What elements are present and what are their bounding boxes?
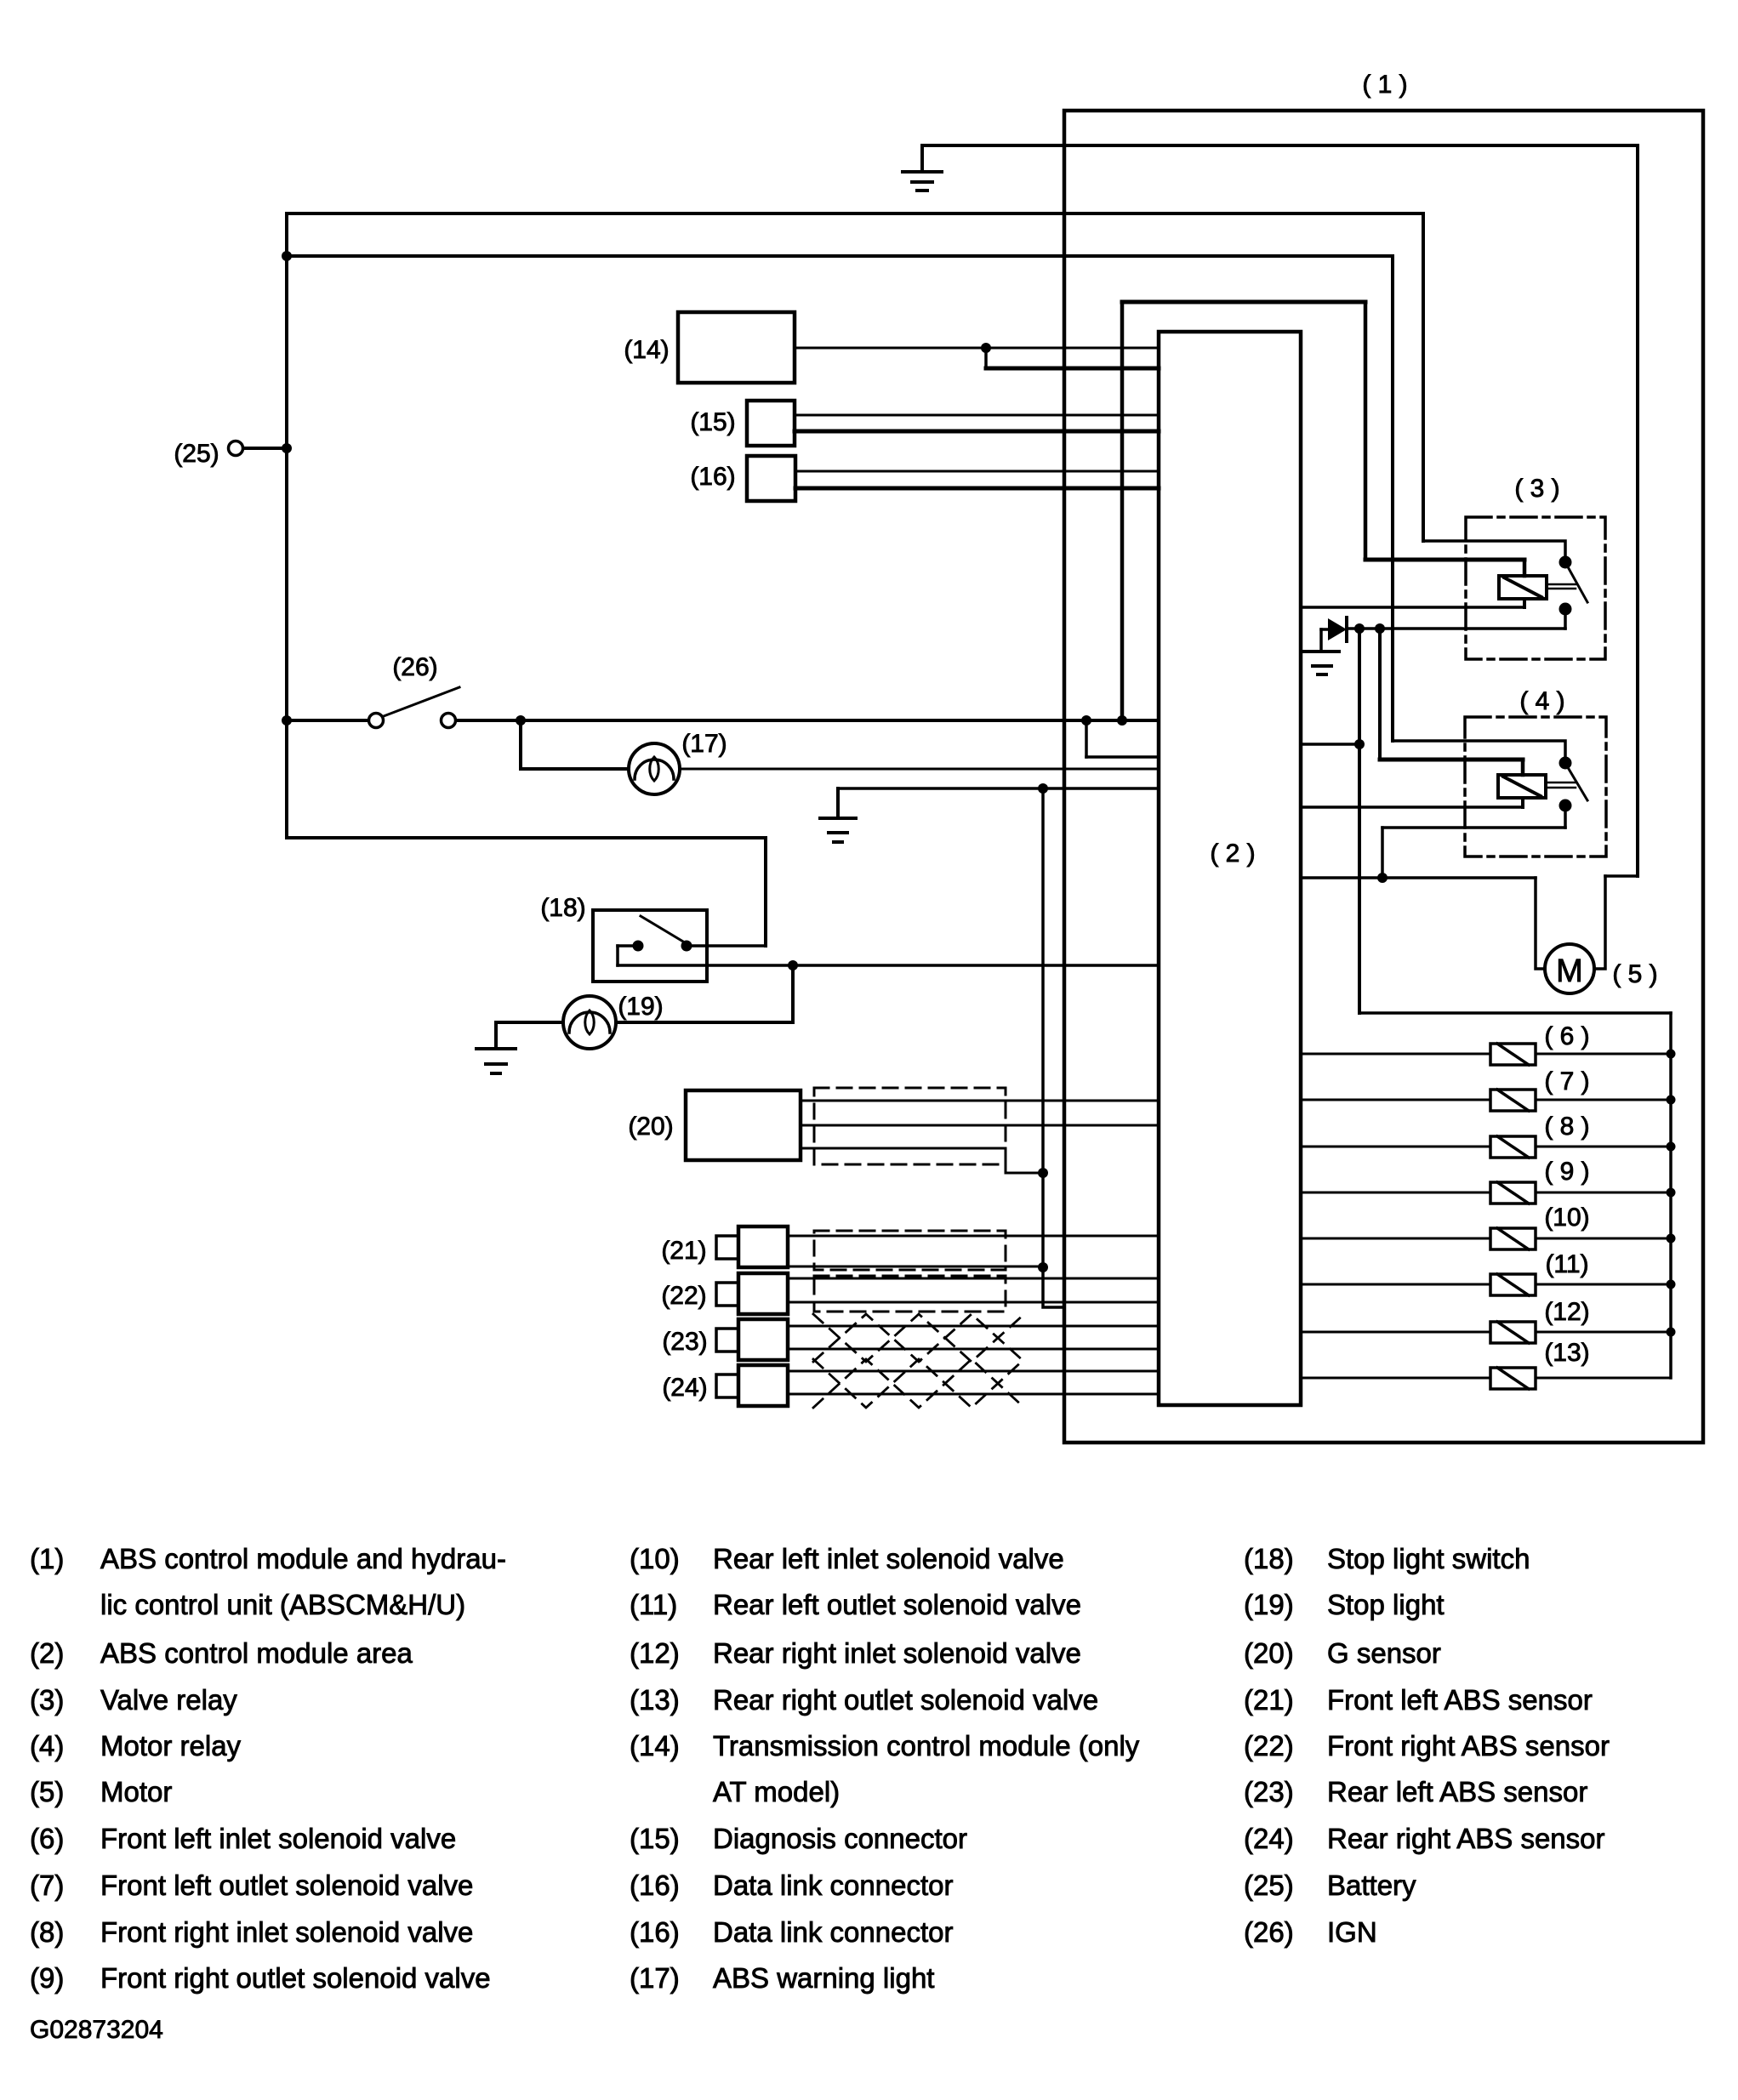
wire TCM branch drop (984, 348, 988, 368)
svg-text:(15): (15) (690, 408, 735, 436)
valve relay U3 dash-dot box (1466, 517, 1605, 659)
svg-text:(24): (24) (1244, 1823, 1294, 1854)
wire diode anode drop (1319, 629, 1323, 652)
wire motor relay output (1382, 826, 1565, 829)
svg-text:(14): (14) (624, 336, 669, 364)
ground G1 top (903, 145, 942, 191)
wire solenoid valve (12) right lead (1536, 1331, 1671, 1334)
wire module ground branch (1085, 720, 1088, 757)
wire IGN row left (287, 719, 368, 722)
wire solenoid bus top (1359, 1011, 1671, 1015)
G sensor shield dashed box (814, 1088, 1006, 1164)
svg-text:Battery: Battery (1327, 1870, 1416, 1901)
svg-text:( 3 ): ( 3 ) (1514, 475, 1559, 503)
sensor 23 twisted pair zigzag A (813, 1314, 1024, 1362)
wire sensor (22) lower lead (788, 1301, 1159, 1304)
wire stop light switch to module (618, 964, 1159, 967)
wire solenoid valve (12) left lead (1301, 1331, 1490, 1334)
svg-text:(19): (19) (1244, 1589, 1294, 1620)
wire solenoid valve (10) left lead (1301, 1238, 1490, 1240)
svg-text:(10): (10) (630, 1543, 680, 1574)
wire battery feed (243, 447, 287, 450)
svg-text:(12): (12) (630, 1637, 680, 1669)
svg-text:Stop light switch: Stop light switch (1327, 1543, 1530, 1574)
wire IGN bridge horizontal (1122, 300, 1365, 304)
node TCM branch (981, 343, 991, 353)
stop light switch box (18) (593, 910, 707, 982)
solenoid valve coil (9) (1490, 1182, 1536, 1204)
svg-text:(15): (15) (630, 1823, 680, 1854)
junction solenoid bus row (8) (1667, 1142, 1676, 1152)
ABS sensor (23) connector small box (716, 1329, 738, 1352)
data link connector box (16) (747, 456, 795, 501)
svg-text:(21): (21) (1244, 1684, 1294, 1716)
wire motor relay coil riser (1378, 629, 1382, 760)
ABS sensor (24) connector small box (716, 1374, 738, 1397)
svg-text:(9): (9) (30, 1962, 64, 1994)
svg-text:(19): (19) (618, 993, 663, 1021)
svg-text:( 7 ): ( 7 ) (1544, 1067, 1589, 1096)
wire module ground line (838, 787, 1159, 790)
stop light switch blade (641, 916, 683, 942)
wire motor relay coil bottom to module (1301, 805, 1523, 809)
svg-text:(25): (25) (1244, 1870, 1294, 1901)
svg-text:lic control unit (ABSCM&H/U): lic control unit (ABSCM&H/U) (100, 1589, 465, 1620)
svg-text:(16): (16) (690, 463, 735, 491)
wire IGN bridge riser (1120, 302, 1125, 720)
node battery junction (282, 443, 292, 453)
svg-text:ABS control module area: ABS control module area (100, 1637, 413, 1669)
wire solenoid valve (6) left lead (1301, 1053, 1490, 1056)
svg-text:Valve relay: Valve relay (100, 1684, 237, 1716)
svg-text:(1): (1) (30, 1543, 64, 1574)
svg-text:( 9 ): ( 9 ) (1544, 1158, 1589, 1186)
wire valve relay lower contact drop (1564, 612, 1567, 629)
solenoid valve coil (12) (1490, 1322, 1536, 1343)
node module sense junction (1354, 739, 1365, 749)
wire motor line from module (1301, 876, 1536, 879)
svg-text:(11): (11) (1545, 1250, 1588, 1278)
svg-text:Data link connector: Data link connector (713, 1916, 953, 1948)
svg-text:Diagnosis connector: Diagnosis connector (713, 1823, 967, 1854)
junction solenoid bus row (9) (1667, 1188, 1676, 1198)
wire motor relay lower contact drop (1564, 809, 1567, 828)
wire motor relay coil bottom stub (1521, 798, 1524, 807)
wire valve relay coil top feed (1365, 558, 1524, 562)
sensor 22 shield dashed box (814, 1276, 1006, 1312)
svg-text:Front right outlet solenoid va: Front right outlet solenoid valve (100, 1962, 491, 1994)
svg-text:(3): (3) (30, 1684, 64, 1716)
wire diagnosis connector lower (795, 430, 1159, 434)
svg-text:(22): (22) (1244, 1730, 1294, 1761)
svg-text:(23): (23) (662, 1328, 707, 1356)
wire stoplight feed into switch (687, 944, 766, 948)
svg-text:(20): (20) (628, 1113, 673, 1141)
svg-text:(6): (6) (30, 1823, 64, 1854)
wire solenoid valve (9) left lead (1301, 1192, 1490, 1194)
stop light switch contact left (633, 941, 644, 952)
wire solenoid supply bus riser (1358, 629, 1361, 1013)
svg-text:( 6 ): ( 6 ) (1544, 1022, 1589, 1050)
wire stop light right (616, 1021, 793, 1024)
wire module ground jog (1086, 755, 1159, 759)
svg-text:Transmission control module (o: Transmission control module (only (713, 1730, 1140, 1761)
svg-text:(4): (4) (30, 1730, 64, 1761)
IGN switch contact right (26) (442, 714, 456, 728)
svg-text:(23): (23) (1244, 1776, 1294, 1807)
svg-text:(2): (2) (30, 1637, 64, 1669)
node motor output junction (1377, 873, 1388, 883)
wire motor return link (1605, 874, 1638, 878)
ABSCM&H/U outer box U1 (1) (1064, 111, 1703, 1443)
node ABS lamp branch (516, 715, 526, 726)
TCM box (14) (678, 312, 795, 383)
node IGN rail left (282, 715, 292, 726)
svg-text:(12): (12) (1544, 1298, 1589, 1326)
svg-text:(24): (24) (662, 1374, 707, 1402)
svg-text:(17): (17) (681, 730, 727, 758)
wire solenoid valve (11) left lead (1301, 1283, 1490, 1286)
svg-text:(22): (22) (661, 1282, 706, 1310)
svg-text:(21): (21) (661, 1237, 706, 1265)
svg-text:G sensor: G sensor (1327, 1637, 1441, 1669)
wire motor right riser (1594, 876, 1605, 969)
ABS sensor (22) connector small box (716, 1283, 738, 1306)
wire stop light switch inner drop (616, 946, 619, 965)
wire G sensor out 2 (801, 1124, 1159, 1127)
svg-text:(18): (18) (1244, 1543, 1294, 1574)
wire sensor (21) lower lead to ground bus (788, 1266, 1043, 1268)
wire motor relay contact feed (1393, 741, 1565, 759)
node module ground branch (1081, 715, 1091, 726)
ABS sensor (23) body box (738, 1319, 788, 1360)
svg-text:Front left outlet solenoid val: Front left outlet solenoid valve (100, 1870, 473, 1901)
sensor 23 twisted pair zigzag B (813, 1314, 1024, 1362)
wire motor relay coil top stub (1521, 760, 1525, 775)
svg-text:AT model): AT model) (713, 1776, 840, 1807)
svg-text:Data link connector: Data link connector (713, 1870, 953, 1901)
junction solenoid bus row (7) (1667, 1096, 1676, 1105)
motor relay U4 dash-dot box (1465, 717, 1606, 857)
svg-text:(20): (20) (1244, 1637, 1294, 1669)
wire sensor (23) lower lead (788, 1348, 1159, 1351)
svg-text:( 2 ): ( 2 ) (1210, 839, 1255, 868)
svg-text:Front left ABS sensor: Front left ABS sensor (1327, 1684, 1593, 1716)
wire sensor ground bus (1043, 788, 1064, 1307)
wire sensor (24) lower lead (788, 1393, 1159, 1396)
sensor 21 shield dashed box (814, 1231, 1006, 1270)
svg-text:ABS warning light: ABS warning light (713, 1962, 934, 1994)
svg-text:Rear right ABS sensor: Rear right ABS sensor (1327, 1823, 1605, 1854)
valve relay armature (1547, 584, 1576, 589)
diode D1 (1321, 617, 1347, 641)
node stop light branch (788, 960, 798, 970)
svg-text:( 4 ): ( 4 ) (1519, 687, 1564, 715)
wire ABS lamp left (521, 767, 629, 771)
wire G sensor shield (801, 1148, 1043, 1173)
wire solenoid valve (7) right lead (1536, 1099, 1671, 1101)
svg-text:Rear left outlet solenoid valv: Rear left outlet solenoid valve (713, 1589, 1081, 1620)
svg-text:(26): (26) (1244, 1916, 1294, 1948)
svg-text:Front right ABS sensor: Front right ABS sensor (1327, 1730, 1610, 1761)
ground G2 module (820, 788, 856, 842)
svg-text:(14): (14) (630, 1730, 680, 1761)
node G sensor shield junction (1038, 1168, 1048, 1178)
ground G4 diode (1303, 652, 1339, 674)
svg-text:Stop light: Stop light (1327, 1589, 1445, 1620)
wire solenoid valve (13) right lead (1536, 1377, 1671, 1380)
valve relay coil K3 (1499, 576, 1547, 599)
wire sensor (23) upper lead (788, 1325, 1159, 1328)
valve relay upper contact (1559, 556, 1572, 569)
wire motor output drop (1381, 828, 1384, 878)
wire ABS lamp right (680, 768, 1159, 771)
solenoid valve coil (7) (1490, 1090, 1536, 1111)
wire sensor (21) upper lead (788, 1235, 1159, 1238)
wire data link connector lower (795, 487, 1159, 491)
svg-text:Motor: Motor (100, 1776, 172, 1807)
svg-text:(8): (8) (30, 1916, 64, 1948)
svg-text:Rear right outlet solenoid val: Rear right outlet solenoid valve (713, 1684, 1098, 1716)
wire TCM output (795, 347, 1159, 350)
wire ground line top (922, 144, 1638, 147)
sensor 24 twisted pair zigzag A (813, 1359, 1024, 1408)
motor relay coil K4 (1498, 775, 1546, 798)
wire battery-plus top bus (287, 212, 1423, 215)
solenoid valve coil (11) (1490, 1274, 1536, 1295)
svg-text:(10): (10) (1544, 1204, 1589, 1232)
wire ABS lamp branch drop (519, 720, 522, 769)
wire solenoid valve (13) left lead (1301, 1377, 1490, 1380)
wire stoplight feed drop (764, 838, 767, 946)
IGN switch blade (26) (384, 687, 459, 716)
svg-text:(25): (25) (174, 440, 219, 468)
svg-text:(11): (11) (630, 1589, 677, 1620)
svg-text:(13): (13) (1544, 1339, 1589, 1367)
wire left rail vertical (285, 213, 288, 838)
ABS sensor (24) body box (738, 1365, 788, 1406)
wire solenoid valve (8) left lead (1301, 1146, 1490, 1148)
svg-text:(18): (18) (540, 894, 585, 922)
svg-text:(5): (5) (30, 1776, 64, 1807)
junction solenoid bus row (11) (1667, 1280, 1676, 1289)
ABS sensor (21) connector small box (716, 1236, 738, 1259)
svg-text:( 5 ): ( 5 ) (1612, 960, 1657, 988)
wire motor left riser (1536, 878, 1545, 969)
wire sensor (24) upper lead (788, 1370, 1159, 1373)
junction solenoid bus row (10) (1667, 1234, 1676, 1243)
svg-text:Front right inlet solenoid val: Front right inlet solenoid valve (100, 1916, 473, 1948)
svg-text:Front left inlet solenoid valv: Front left inlet solenoid valve (100, 1823, 456, 1854)
wire IGN bridge drop to valve relay coil (1364, 302, 1368, 560)
wire solenoid valve (10) right lead (1536, 1238, 1671, 1240)
motor M1 (5) (1545, 944, 1594, 993)
ABS warning light L17 (629, 743, 680, 794)
wire solenoid valve (9) right lead (1536, 1192, 1671, 1194)
motor relay armature (1546, 783, 1576, 788)
wire valve relay output line (1347, 627, 1565, 630)
wire valve relay coil bottom stub (1523, 599, 1526, 607)
ABS sensor (21) body box (738, 1226, 788, 1267)
wire valve relay coil top stub (1523, 560, 1527, 576)
svg-text:( 1 ): ( 1 ) (1362, 71, 1407, 99)
junction solenoid bus row (6) (1667, 1050, 1676, 1059)
svg-text:(17): (17) (630, 1962, 680, 1994)
svg-text:(16): (16) (630, 1916, 680, 1948)
wire solenoid bus vertical (1669, 1013, 1672, 1378)
svg-text:(16): (16) (630, 1870, 680, 1901)
svg-text:(7): (7) (30, 1870, 64, 1901)
G sensor box (20) (686, 1090, 801, 1160)
wire valve relay coil bottom to module (1301, 606, 1524, 609)
wire second top bus (287, 254, 1393, 258)
stop light switch contact right (681, 941, 692, 952)
wire valve relay contact feed (1423, 541, 1565, 558)
motor relay blade (1566, 765, 1587, 800)
node sensor 21 shield junction (1038, 1262, 1048, 1272)
motor relay upper contact (1559, 757, 1572, 770)
wire module sense tap (1301, 743, 1359, 746)
svg-text:(13): (13) (630, 1684, 680, 1716)
svg-text:Rear left inlet solenoid valve: Rear left inlet solenoid valve (713, 1543, 1064, 1574)
wire solenoid valve (11) right lead (1536, 1283, 1671, 1286)
svg-text:M: M (1556, 953, 1583, 989)
sensor 24 twisted pair zigzag B (813, 1359, 1024, 1408)
node sensor ground tap (1038, 783, 1048, 794)
svg-text:Rear left ABS sensor: Rear left ABS sensor (1327, 1776, 1587, 1807)
wire motor return vertical (1636, 145, 1639, 876)
motor relay lower contact (1559, 800, 1572, 812)
node IGN bridge junction (1117, 715, 1127, 726)
node motor relay coil tap (1375, 623, 1385, 634)
svg-text:ABS control module and hydrau-: ABS control module and hydrau- (100, 1543, 506, 1574)
node battery bus tap (282, 251, 292, 261)
stop light lamp L19 (563, 996, 616, 1049)
svg-text:G02873204: G02873204 (30, 2016, 163, 2044)
solenoid valve coil (6) (1490, 1044, 1536, 1065)
ground G3 stop light (476, 1022, 516, 1073)
wire stoplight feed lower left rail (287, 836, 766, 839)
wire solenoid valve (7) left lead (1301, 1099, 1490, 1101)
wire motor relay coil top feed (1380, 758, 1523, 762)
diagnosis connector box (15) (747, 401, 795, 446)
ABS control module area box (2) (1159, 332, 1301, 1405)
wire solenoid valve (6) right lead (1536, 1053, 1671, 1056)
svg-text:Rear right inlet solenoid valv: Rear right inlet solenoid valve (713, 1637, 1081, 1669)
wire stop light branch drop (791, 965, 795, 1022)
svg-text:( 8 ): ( 8 ) (1544, 1113, 1589, 1141)
wire IGN row right (456, 719, 1159, 722)
wire G sensor out 1 (801, 1100, 1159, 1102)
wire stop light switch output (618, 944, 633, 948)
solenoid valve coil (13) (1490, 1368, 1536, 1389)
IGN switch contact left (26) (369, 714, 384, 728)
wire stop light left (496, 1021, 563, 1024)
svg-text:IGN: IGN (1327, 1916, 1377, 1948)
wire sensor (22) upper lead (788, 1278, 1159, 1280)
wire solenoid valve (8) right lead (1536, 1146, 1671, 1148)
wire TCM branch to module (986, 367, 1159, 371)
node valve relay output / diode (1354, 623, 1365, 634)
valve relay blade (1566, 564, 1587, 602)
battery terminal (25) (229, 441, 243, 456)
junction solenoid bus row (12) (1667, 1328, 1676, 1337)
wire data link connector upper (795, 470, 1159, 473)
solenoid valve coil (8) (1490, 1136, 1536, 1158)
wire diagnosis connector upper (795, 414, 1159, 417)
wire top bus drop to valve relay contact (1422, 213, 1425, 541)
ABS sensor (22) body box (738, 1273, 788, 1314)
wire second bus drop to motor relay contact (1391, 256, 1394, 741)
svg-text:(26): (26) (392, 653, 437, 681)
svg-text:Motor relay: Motor relay (100, 1730, 242, 1761)
valve relay lower contact (1559, 603, 1572, 616)
solenoid valve coil (10) (1490, 1228, 1536, 1249)
